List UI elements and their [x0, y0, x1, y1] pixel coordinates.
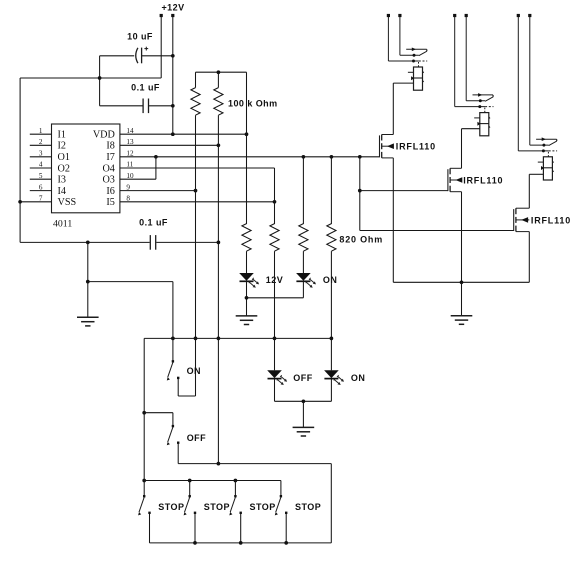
wire: [149, 105, 173, 107]
svg-text:4011: 4011: [53, 219, 72, 230]
wire Q3 source: [528, 232, 530, 283]
wire: [330, 378, 332, 401]
node: [460, 280, 464, 284]
wire switch chain: [143, 338, 145, 480]
node: [194, 189, 198, 193]
wire: [330, 251, 332, 370]
LED D1 12V: [239, 273, 259, 288]
wire: [143, 481, 145, 496]
wire: [330, 464, 332, 543]
svg-text:I5: I5: [106, 197, 115, 208]
wire: [156, 241, 218, 243]
node: [193, 541, 197, 545]
svg-text:4: 4: [39, 161, 43, 169]
wire: [160, 17, 162, 78]
wire: [240, 514, 242, 543]
wire: [149, 514, 151, 543]
wire Q2 gate row: [360, 190, 448, 192]
svg-text:I3: I3: [58, 175, 67, 186]
capacitor C3 0.1uF: [150, 235, 155, 250]
wire pin9 row: [120, 190, 196, 192]
wire STOP feed row: [144, 480, 281, 482]
transistor Q2 IRFL110: [448, 168, 462, 191]
wire left rail: [19, 78, 21, 242]
wire: [189, 481, 191, 496]
svg-text:VSS: VSS: [58, 197, 77, 208]
svg-text:0.1 uF: 0.1 uF: [131, 82, 160, 92]
svg-text:VDD: VDD: [93, 130, 115, 141]
node: [154, 155, 158, 159]
wire branch3: [302, 157, 304, 224]
wire coil2 to Q2 drain: [462, 128, 480, 130]
node: [273, 200, 277, 204]
wire: [20, 77, 161, 79]
svg-text:OFF: OFF: [187, 433, 206, 443]
svg-text:I8: I8: [106, 141, 115, 152]
svg-text:STOP: STOP: [158, 502, 184, 512]
wire: [275, 400, 332, 402]
wire: [392, 83, 394, 134]
ground: [236, 316, 258, 325]
svg-text:IRFL110: IRFL110: [396, 141, 436, 151]
node: [171, 104, 175, 108]
switch S6 STOP: [275, 495, 288, 515]
wire: [461, 129, 463, 169]
svg-text:100 k Ohm: 100 k Ohm: [228, 98, 278, 108]
wire: [88, 281, 173, 283]
svg-text:I2: I2: [58, 141, 67, 152]
svg-text:O3: O3: [102, 175, 114, 186]
node: [217, 241, 221, 245]
LED D2 ON: [296, 273, 316, 288]
svg-text:I6: I6: [106, 186, 115, 197]
LED D3 OFF: [267, 370, 287, 385]
wire: [194, 514, 196, 543]
wire pin8 row: [120, 201, 275, 203]
relay K1: [387, 14, 427, 90]
svg-text:OFF: OFF: [293, 373, 312, 383]
svg-text:O4: O4: [102, 163, 114, 174]
svg-text:6: 6: [39, 183, 43, 191]
svg-text:ON: ON: [187, 366, 201, 376]
wire: [280, 481, 282, 496]
node: [217, 70, 221, 74]
svg-text:1: 1: [39, 127, 43, 135]
transistor Q3 IRFL110: [514, 208, 530, 231]
wire ground drop: [87, 242, 89, 317]
pin 7 stub: [20, 201, 51, 203]
pin 6 stub: [30, 190, 52, 192]
node junction: [98, 76, 102, 80]
capacitor C2 0.1uF: [143, 99, 148, 114]
svg-text:+12V: +12V: [161, 3, 184, 13]
wire: [274, 251, 276, 370]
wire: [99, 56, 101, 106]
svg-text:I4: I4: [58, 186, 67, 197]
wire: [285, 514, 287, 543]
capacitor C1 10uF: [136, 47, 148, 64]
transistor Q1 IRFL110: [380, 135, 394, 158]
wire: [172, 413, 174, 425]
wire: [142, 55, 173, 57]
wire coil3 to Q3 drain: [529, 173, 543, 175]
svg-text:IRFL110: IRFL110: [531, 215, 571, 225]
node: [171, 54, 175, 58]
svg-text:IRFL110: IRFL110: [463, 176, 503, 186]
wire: [100, 105, 143, 107]
wire: [247, 297, 304, 299]
svg-text:O1: O1: [58, 152, 70, 163]
wire: [234, 481, 236, 496]
wire coil1 to Q1 drain: [393, 82, 413, 84]
wire gate chain vertical: [359, 157, 361, 231]
svg-text:I1: I1: [58, 130, 67, 141]
resistor R1 100k: [191, 88, 200, 116]
ground: [451, 316, 473, 325]
wire: [144, 412, 173, 414]
node: [358, 189, 362, 193]
wire pin10 row: [120, 178, 156, 180]
wire: [172, 282, 174, 339]
resistor R3 820: [242, 224, 251, 252]
node: [217, 143, 221, 147]
svg-text:I7: I7: [106, 152, 115, 163]
node: [142, 411, 146, 415]
node VSS to rail: [18, 200, 22, 204]
wire 100k top rail: [196, 71, 247, 73]
pin 4 stub: [30, 167, 52, 169]
node: [171, 337, 175, 341]
svg-text:10 uF: 10 uF: [127, 31, 153, 41]
wire: [178, 395, 195, 397]
node: [302, 399, 306, 403]
switch S4 STOP: [184, 495, 197, 515]
node: [188, 479, 192, 483]
power +12V terminals: [160, 14, 175, 17]
wire Q2 source: [461, 192, 463, 283]
node: [330, 337, 334, 341]
svg-text:ON: ON: [323, 275, 337, 285]
pin 5 stub: [30, 178, 52, 180]
wire OFF return row: [178, 463, 331, 465]
wire pin12 row to Q1 gate: [120, 156, 380, 158]
svg-text:7: 7: [39, 195, 43, 203]
svg-text:STOP: STOP: [204, 502, 230, 512]
node: [86, 280, 90, 284]
relay K2: [453, 14, 493, 136]
wire: [528, 174, 530, 208]
wire: [302, 401, 304, 427]
wire branch2: [274, 168, 276, 224]
svg-text:0.1 uF: 0.1 uF: [139, 218, 168, 228]
IC U1 4011: [52, 124, 120, 213]
wire: [177, 444, 179, 464]
svg-text:STOP: STOP: [250, 502, 276, 512]
wire Q1 source: [392, 158, 394, 282]
wire branch1: [246, 72, 248, 224]
pin 1 stub: [30, 133, 52, 135]
switch S5 STOP: [229, 495, 242, 515]
wire switch common row: [144, 337, 331, 339]
switch S1 ON: [167, 360, 180, 380]
switch S2 OFF: [167, 425, 180, 445]
wire VDD row: [120, 133, 247, 135]
ground: [77, 317, 99, 326]
wire: [100, 55, 135, 57]
node: [245, 296, 249, 300]
wire STOP bottom row: [150, 542, 332, 544]
wire 0.1uF bottom row: [20, 241, 150, 243]
svg-text:2: 2: [39, 138, 43, 146]
svg-text:3: 3: [39, 150, 43, 158]
wire: [246, 281, 248, 316]
switch S3 STOP: [138, 495, 151, 515]
node: [171, 132, 175, 136]
wire R1 bottom / ON-switch return: [195, 115, 197, 396]
pin 3 stub: [30, 156, 52, 158]
resistor R5 820: [270, 224, 279, 252]
wire: [302, 251, 304, 273]
wire: [172, 17, 174, 134]
LED D4 ON: [324, 370, 344, 385]
wire: [461, 282, 463, 315]
svg-text:STOP: STOP: [295, 502, 321, 512]
svg-text:820 Ohm: 820 Ohm: [339, 235, 383, 245]
wire: [177, 379, 179, 396]
wire: [195, 72, 197, 87]
wire pin13 row: [120, 144, 218, 146]
svg-text:ON: ON: [351, 373, 365, 383]
resistor R4 820: [299, 224, 308, 252]
node: [86, 241, 90, 245]
wire pin10-pin12 link: [155, 157, 157, 179]
svg-text:O2: O2: [58, 163, 70, 174]
wire: [217, 72, 219, 87]
resistor R2 100k: [214, 88, 223, 116]
wire R2 bottom run: [217, 115, 219, 463]
wire: [172, 338, 174, 360]
ground: [293, 427, 315, 436]
wire: [302, 281, 304, 298]
node: [273, 337, 277, 341]
relay K3: [517, 14, 557, 180]
wire: [246, 251, 248, 273]
resistor R6 820: [327, 224, 336, 252]
wire branch4: [330, 157, 332, 224]
svg-text:5: 5: [39, 172, 43, 180]
wire Q3 gate row: [360, 230, 514, 232]
wire: [274, 378, 276, 401]
wire pin11 row: [120, 167, 275, 169]
wire source rail: [393, 281, 529, 283]
pin 2 stub: [30, 144, 52, 146]
